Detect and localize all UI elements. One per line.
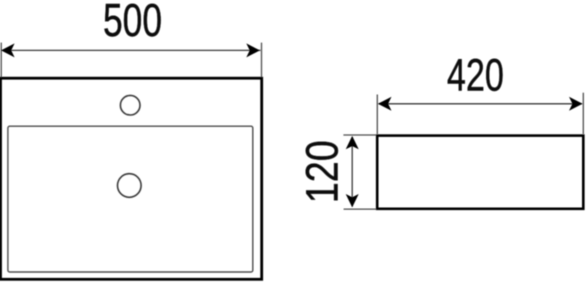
svg-text:500: 500 [103, 0, 162, 46]
dim 500: right arrowhead [246, 43, 260, 57]
dim 420: right arrowhead [569, 97, 583, 111]
dim 500: left arrowhead [1, 43, 15, 57]
dim 120: bottom extension line [344, 208, 376, 210]
side view: rect [377, 136, 583, 209]
dim 120: dimension line [351, 137, 353, 207]
dim 120: top extension line [343, 134, 376, 136]
dim 420: left arrowhead [378, 97, 392, 111]
drain hole circle [118, 174, 142, 198]
dim 420: dimension line [379, 103, 583, 105]
dim 500: dimension line [2, 49, 261, 51]
dim 500: left extension line [0, 43, 2, 77]
svg-text:420: 420 [447, 49, 504, 100]
dim 420: left extension line [376, 95, 378, 135]
dim 120: bottom arrowhead [346, 194, 359, 207]
svg-text:120: 120 [296, 140, 347, 203]
dim 120: top arrowhead [346, 136, 359, 149]
dim 420: right extension line [582, 93, 584, 134]
top view: basin outer rect [1, 78, 262, 279]
faucet hole circle [120, 95, 140, 115]
dim 500: right extension line [261, 43, 263, 77]
top view: basin inner rect [8, 126, 253, 272]
